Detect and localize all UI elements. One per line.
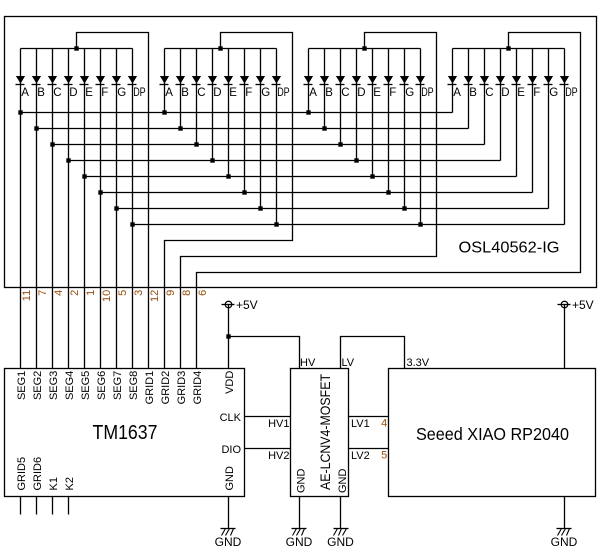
wire: segment E collector line — [85, 176, 517, 178]
pin label HV (MOSFET) — [300, 357, 316, 369]
svg-text:B: B — [37, 87, 45, 99]
svg-text:GRID4: GRID4 — [192, 371, 204, 405]
wire: digit 2 common to GRID2 — [165, 33, 293, 369]
svg-text:G: G — [261, 87, 270, 99]
svg-text:7: 7 — [37, 290, 49, 296]
pin label GND (TM1637) — [224, 466, 236, 491]
LED digit 1 segment D — [64, 49, 78, 369]
svg-text:GRID3: GRID3 — [176, 371, 188, 405]
pin number 10 (display pin, wire x=100) — [101, 290, 113, 302]
LED digit 1 segment F — [96, 49, 109, 369]
pin label LV2 (MOSFET) — [351, 450, 370, 462]
svg-text:DP: DP — [421, 87, 434, 99]
junction: digit 3 common node — [362, 46, 366, 50]
svg-text:DP: DP — [277, 87, 290, 99]
pin label SEG7 (TM1637) — [112, 371, 124, 400]
pin label GRID2 (TM1637) — [160, 371, 172, 405]
junction: segment G digit 1 — [114, 206, 118, 210]
pin number 4 (XIAO) — [381, 417, 387, 429]
wire: segment DP collector line — [133, 224, 565, 226]
ground GND (TM1637) — [215, 497, 242, 550]
LED digit 4 segment DP — [560, 49, 578, 225]
svg-text:SEG1: SEG1 — [16, 371, 28, 400]
svg-text:DP: DP — [565, 87, 578, 99]
pin number 5 (display pin, wire x=116) — [117, 290, 129, 296]
LED digit 1 segment E — [80, 49, 94, 369]
junction: segment B digit 3 — [322, 126, 326, 130]
junction: segment A digit 2 — [162, 110, 166, 114]
svg-text:GND: GND — [215, 535, 242, 549]
svg-text:3: 3 — [133, 290, 145, 296]
svg-text:GRID5: GRID5 — [16, 457, 28, 491]
svg-text:SEG2: SEG2 — [32, 371, 44, 400]
svg-text:B: B — [469, 87, 477, 99]
LED digit 3 segment G — [400, 49, 415, 209]
svg-text:VDD: VDD — [224, 371, 236, 394]
svg-text:SEG4: SEG4 — [64, 371, 76, 400]
pin label HV1 (MOSFET) — [268, 418, 289, 430]
svg-text:A: A — [309, 87, 317, 99]
svg-text:4: 4 — [53, 290, 65, 296]
pin label GND left (MOSFET) — [296, 469, 308, 494]
pin label VDD (TM1637) — [224, 371, 236, 394]
svg-text:10: 10 — [101, 290, 113, 302]
wire: LV1 to XIAO pin 4 — [349, 416, 389, 418]
svg-text:HV: HV — [300, 357, 316, 369]
svg-text:OSL40562-IG: OSL40562-IG — [459, 240, 560, 257]
svg-text:F: F — [101, 87, 108, 99]
svg-text:B: B — [181, 87, 189, 99]
wire: segment D collector line — [69, 160, 501, 162]
IC U1 TM1637 outline — [5, 369, 245, 497]
LED digit 3 segment F — [384, 49, 397, 193]
junction: +5V branch — [226, 334, 230, 338]
pin label SEG4 (TM1637) — [64, 371, 76, 400]
svg-text:8: 8 — [181, 290, 193, 296]
pin number 9 (display pin, wire x=164) — [165, 290, 177, 296]
wire: DIO to HV2 — [245, 448, 291, 450]
svg-text:A: A — [165, 87, 173, 99]
svg-text:A: A — [453, 87, 461, 99]
pin label HV2 (MOSFET) — [268, 450, 289, 462]
svg-text:+5V: +5V — [572, 298, 594, 312]
svg-text:E: E — [373, 87, 381, 99]
pin label GRID5 (TM1637) — [16, 457, 28, 491]
svg-text:SEG8: SEG8 — [128, 371, 140, 400]
svg-text:F: F — [245, 87, 252, 99]
LED digit 2 segment C — [192, 49, 206, 145]
LED digit 4 segment F — [528, 49, 541, 193]
junction: segment G digit 2 — [258, 206, 262, 210]
pin stub GRID5 (TM1637 unconnected) — [20, 497, 22, 515]
svg-text:GRID2: GRID2 — [160, 371, 172, 405]
wire: digit 1 common to GRID1 — [77, 33, 149, 369]
svg-text:GND: GND — [327, 535, 354, 549]
LED digit 3 segment C — [336, 49, 350, 145]
svg-text:11: 11 — [21, 290, 33, 301]
pin label GRID4 (TM1637) — [192, 371, 204, 405]
LED digit 4 segment G — [544, 49, 559, 209]
pin label SEG6 (TM1637) — [96, 371, 108, 400]
junction: segment C digit 1 — [50, 142, 54, 146]
svg-text:SEG6: SEG6 — [96, 371, 108, 400]
LED digit 2 segment E — [224, 49, 238, 177]
LED digit 3 segment B — [320, 49, 334, 129]
LED digit 3 segment D — [352, 49, 366, 161]
display OSL40562-IG outline — [5, 17, 597, 288]
wire: segment B collector line — [37, 128, 469, 130]
junction: segment D digit 2 — [210, 158, 214, 162]
pin number 12 (display pin, wire x=148) — [149, 290, 161, 302]
LED digit 2 segment G — [256, 49, 271, 209]
svg-text:LV: LV — [342, 357, 355, 369]
svg-text:C: C — [485, 87, 493, 99]
svg-text:GND: GND — [551, 535, 578, 549]
wire: LV2 to XIAO pin 5 — [349, 448, 389, 450]
wire: digit 1 common-anode bus — [21, 48, 133, 50]
pin label GRID1 (TM1637) — [144, 371, 156, 405]
wire: CLK to HV1 — [245, 416, 291, 418]
svg-text:Seeed XIAO RP2040: Seeed XIAO RP2040 — [416, 424, 569, 444]
LED digit 4 segment C — [480, 49, 494, 145]
power symbol +5V (right) — [558, 301, 571, 308]
svg-text:SEG3: SEG3 — [48, 371, 60, 400]
svg-text:K1: K1 — [48, 477, 60, 490]
pin number 1 (display pin, wire x=84) — [85, 290, 97, 296]
IC U3 Seeed XIAO RP2040 outline — [389, 369, 596, 497]
LED digit 3 segment DP — [416, 49, 434, 225]
svg-text:C: C — [341, 87, 349, 99]
junction: segment B digit 2 — [178, 126, 182, 130]
svg-text:LV1: LV1 — [351, 418, 370, 430]
svg-text:D: D — [501, 87, 509, 99]
LED digit 1 segment B — [32, 49, 46, 369]
svg-text:GND: GND — [296, 469, 308, 494]
wire: digit 2 common-anode bus — [165, 48, 277, 50]
svg-text:F: F — [533, 87, 540, 99]
svg-text:G: G — [117, 87, 126, 99]
power symbol +5V (left) — [222, 301, 235, 308]
svg-text:2: 2 — [69, 290, 81, 296]
junction: segment E digit 3 — [370, 174, 374, 178]
pin label GND right (MOSFET) — [337, 469, 349, 494]
pin label K1 (TM1637) — [48, 477, 60, 490]
svg-text:5: 5 — [117, 290, 129, 296]
pin label SEG5 (TM1637) — [80, 371, 92, 400]
svg-text:CLK: CLK — [220, 412, 242, 424]
svg-text:K2: K2 — [64, 477, 76, 490]
junction: segment E digit 2 — [226, 174, 230, 178]
ground GND (MOSFET left) — [286, 497, 313, 550]
svg-text:SEG5: SEG5 — [80, 371, 92, 400]
pin label GRID6 (TM1637) — [32, 457, 44, 491]
svg-text:E: E — [229, 87, 237, 99]
junction: segment B digit 1 — [34, 126, 38, 130]
LED digit 4 segment D — [496, 49, 510, 161]
label Seeed XIAO RP2040 — [416, 424, 569, 444]
svg-text:D: D — [69, 87, 77, 99]
svg-text:D: D — [213, 87, 221, 99]
junction: segment DP digit 1 — [130, 222, 134, 226]
svg-text:GND: GND — [286, 535, 313, 549]
junction: segment D digit 1 — [66, 158, 70, 162]
pin number 4 (display pin, wire x=52) — [53, 290, 65, 296]
junction: digit 4 common node — [506, 46, 510, 50]
label OSL40562-IG — [459, 240, 560, 257]
wire: LV to 3.3V — [341, 337, 405, 369]
junction: segment D digit 3 — [354, 158, 358, 162]
label AE-LCNV4-MOSFET — [318, 374, 333, 490]
svg-text:A: A — [21, 87, 29, 99]
pin label LV (MOSFET) — [342, 357, 355, 369]
svg-text:C: C — [53, 87, 61, 99]
junction: segment E digit 1 — [82, 174, 86, 178]
wire: +5V branch to HV — [229, 337, 300, 369]
pin number 7 (display pin, wire x=36) — [37, 290, 49, 296]
junction: segment F digit 1 — [98, 190, 102, 194]
junction: segment A digit 1 — [18, 110, 22, 114]
svg-text:TM1637: TM1637 — [93, 422, 158, 444]
svg-text:C: C — [197, 87, 205, 99]
pin label GRID3 (TM1637) — [176, 371, 188, 405]
LED digit 1 segment C — [48, 49, 62, 369]
LED digit 1 segment DP — [128, 49, 146, 369]
label +5V (right) — [572, 298, 594, 312]
junction: segment F digit 3 — [386, 190, 390, 194]
wire: segment C collector line — [53, 144, 485, 146]
junction: digit 1 common node — [74, 46, 78, 50]
svg-text:LV2: LV2 — [351, 450, 370, 462]
svg-text:SEG7: SEG7 — [112, 371, 124, 400]
pin stub K1 (TM1637 unconnected) — [52, 497, 54, 515]
svg-text:5: 5 — [381, 449, 387, 461]
svg-text:HV1: HV1 — [268, 418, 289, 430]
svg-text:1: 1 — [85, 290, 97, 296]
wire: segment F collector line — [101, 192, 533, 194]
pin label SEG3 (TM1637) — [48, 371, 60, 400]
svg-text:D: D — [357, 87, 365, 99]
label TM1637 — [93, 422, 158, 444]
ground GND (MOSFET right) — [327, 497, 354, 550]
LED digit 3 segment A — [304, 49, 318, 113]
wire: digit 4 common to GRID4 — [197, 33, 581, 369]
svg-text:E: E — [517, 87, 525, 99]
wire: digit 3 common to GRID3 — [181, 33, 437, 369]
svg-text:G: G — [405, 87, 414, 99]
svg-text:DP: DP — [133, 87, 146, 99]
LED digit 4 segment A — [448, 49, 462, 113]
pin label 3.3V (XIAO) — [407, 357, 430, 369]
LED digit 2 segment A — [160, 49, 174, 113]
svg-text:GND: GND — [224, 466, 236, 491]
LED digit 2 segment D — [208, 49, 222, 161]
wire: segment A collector line — [21, 112, 453, 114]
pin label K2 (TM1637) — [64, 477, 76, 490]
pin label DIO (TM1637) — [221, 444, 241, 456]
wire: digit 4 common-anode bus — [453, 48, 565, 50]
svg-text:9: 9 — [165, 290, 177, 296]
svg-text:B: B — [325, 87, 333, 99]
svg-text:3.3V: 3.3V — [407, 357, 430, 369]
svg-text:HV2: HV2 — [268, 450, 289, 462]
pin label SEG2 (TM1637) — [32, 371, 44, 400]
svg-text:6: 6 — [197, 290, 209, 296]
label +5V (left) — [236, 298, 258, 312]
ground GND (XIAO) — [551, 497, 578, 550]
pin number 2 (display pin, wire x=68) — [69, 290, 81, 296]
junction: segment DP digit 3 — [418, 222, 422, 226]
pin number 5 (XIAO) — [381, 449, 387, 461]
wire: +5V to XIAO 5V pin — [564, 305, 566, 369]
junction: digit 2 common node — [218, 46, 222, 50]
pin label CLK (TM1637) — [220, 412, 242, 424]
svg-text:GRID6: GRID6 — [32, 457, 44, 491]
wire: +5V to VDD — [228, 305, 230, 369]
LED digit 1 segment A — [16, 49, 30, 369]
svg-text:DIO: DIO — [221, 444, 241, 456]
LED digit 2 segment F — [240, 49, 253, 193]
pin stub GRID6 (TM1637 unconnected) — [36, 497, 38, 515]
junction: segment C digit 3 — [338, 142, 342, 146]
wire: segment G collector line — [117, 208, 549, 210]
svg-text:GND: GND — [337, 469, 349, 494]
pin stub K2 (TM1637 unconnected) — [68, 497, 70, 515]
svg-text:12: 12 — [149, 290, 161, 302]
pin number 3 (display pin, wire x=132) — [133, 290, 145, 296]
svg-text:4: 4 — [381, 417, 387, 429]
pin number 11 (display pin, wire x=20) — [21, 290, 33, 301]
LED digit 2 segment DP — [272, 49, 290, 225]
junction: segment DP digit 2 — [274, 222, 278, 226]
junction: segment F digit 2 — [242, 190, 246, 194]
pin label LV1 (MOSFET) — [351, 418, 370, 430]
pin label SEG1 (TM1637) — [16, 371, 28, 400]
svg-text:E: E — [85, 87, 93, 99]
svg-text:F: F — [389, 87, 396, 99]
junction: segment G digit 3 — [402, 206, 406, 210]
LED digit 4 segment E — [512, 49, 526, 177]
LED digit 3 segment E — [368, 49, 382, 177]
LED digit 4 segment B — [464, 49, 478, 129]
junction: segment C digit 2 — [194, 142, 198, 146]
junction: segment A digit 3 — [306, 110, 310, 114]
svg-text:G: G — [549, 87, 558, 99]
LED digit 2 segment B — [176, 49, 190, 129]
svg-text:GRID1: GRID1 — [144, 371, 156, 405]
IC U2 AE-LCNV4-MOSFET outline — [291, 369, 349, 497]
pin label SEG8 (TM1637) — [128, 371, 140, 400]
pin number 8 (display pin, wire x=180) — [181, 290, 193, 296]
svg-text:AE-LCNV4-MOSFET: AE-LCNV4-MOSFET — [318, 374, 333, 490]
LED digit 1 segment G — [112, 49, 127, 369]
pin number 6 (display pin, wire x=196) — [197, 290, 209, 296]
svg-text:+5V: +5V — [236, 298, 258, 312]
wire: digit 3 common-anode bus — [309, 48, 421, 50]
